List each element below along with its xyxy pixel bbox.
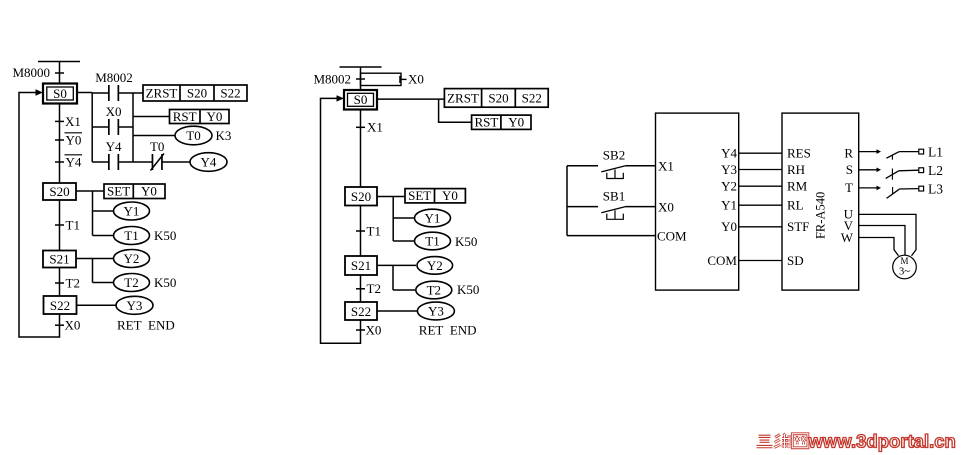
svg-text:X0: X0 [408, 72, 424, 87]
switch blade L1 [886, 152, 899, 159]
arrowhead into S0 (middle) [337, 95, 345, 101]
svg-text:Y0: Y0 [721, 219, 737, 234]
wire S20 to SET (middle) [377, 196, 405, 198]
wire top power bar (middle SFC) [340, 66, 382, 68]
svg-text:RET END: RET END [117, 318, 175, 333]
jump branch rectangle (middle) [361, 73, 402, 85]
svg-text:T2: T2 [427, 283, 441, 298]
transition X1 tick (middle) [356, 126, 365, 128]
step S21 box (left) [43, 251, 76, 268]
wire S22 to coil Y3 [77, 304, 117, 306]
svg-text:RST: RST [474, 115, 498, 130]
wire Y3 to RH [739, 169, 782, 171]
svg-text:SB1: SB1 [603, 188, 625, 203]
svg-text:S22: S22 [220, 86, 240, 101]
wire top power bar (left SFC) [38, 61, 80, 63]
svg-text:T2: T2 [66, 276, 80, 291]
svg-text:Y4: Y4 [721, 146, 737, 161]
wire blade to L1 [899, 151, 918, 153]
svg-text:SD: SD [787, 253, 804, 268]
step S22 box (left) [44, 296, 77, 314]
wire feedback loop (middle) [321, 98, 361, 343]
wire blade to L2 [898, 169, 918, 172]
svg-text:X0: X0 [106, 104, 122, 119]
svg-text:X1: X1 [658, 159, 674, 174]
wire rail to COM [567, 235, 656, 237]
wire contact M8002 to ZRST [118, 92, 143, 94]
svg-text:S20: S20 [351, 189, 371, 204]
svg-text:SET: SET [408, 188, 431, 203]
svg-text:X1: X1 [367, 120, 383, 135]
wire blade to L3 [899, 188, 918, 190]
step S20 box (left) [43, 183, 76, 200]
svg-text:COM: COM [657, 228, 687, 243]
svg-text:R: R [844, 146, 853, 161]
transition X1 tick (left) [55, 120, 64, 122]
terminal square L3 [919, 186, 924, 191]
svg-text:Y0: Y0 [66, 133, 82, 148]
arrowhead R [877, 149, 882, 154]
svg-text:T0: T0 [186, 128, 200, 143]
svg-text:Y1: Y1 [124, 204, 140, 219]
svg-text:X0: X0 [65, 318, 81, 333]
svg-text:RH: RH [787, 162, 805, 177]
wire right rail to RST [133, 116, 170, 118]
svg-text:Y2: Y2 [124, 251, 140, 266]
wire SB2 to X1 [626, 165, 656, 167]
svg-text:Y0: Y0 [508, 115, 524, 130]
svg-text:FR-A540: FR-A540 [814, 192, 828, 239]
wire to coil T2 (middle) [393, 289, 415, 291]
svg-text:T2: T2 [367, 281, 381, 296]
wire S0 to S20 [59, 104, 61, 184]
wire branch vertical under S21 line [92, 259, 94, 283]
pushbutton SB1 [601, 207, 625, 213]
wire to coil Y1 (middle) [393, 217, 414, 219]
svg-text:T0: T0 [150, 139, 164, 154]
switch blade L2 [886, 171, 899, 178]
svg-text:L1: L1 [928, 144, 943, 159]
instruction box SET Y0 (middle) [405, 189, 465, 203]
svg-text:S22: S22 [351, 304, 371, 319]
transition Y4-bar tick (left) [55, 161, 64, 163]
contact M8002 transition tick (middle) [356, 78, 365, 80]
wire V to motor [859, 226, 905, 256]
svg-text:S20: S20 [187, 86, 207, 101]
coil T1 with K50 (middle) [415, 232, 451, 250]
wire rail to SB2 [567, 165, 598, 167]
arrowhead T [877, 186, 882, 191]
step S20 box (middle) [345, 187, 377, 206]
svg-text:X1: X1 [65, 114, 81, 129]
svg-text:SET: SET [107, 184, 130, 199]
svg-text:M8002: M8002 [313, 71, 351, 86]
wire COM to SD [739, 260, 782, 262]
instruction box SET Y0 (left) [104, 184, 165, 199]
svg-text:L3: L3 [928, 181, 943, 196]
contact T0 normally closed [151, 154, 153, 170]
coil Y1 (middle) [415, 209, 451, 227]
step S0 inner box (middle) [348, 93, 374, 106]
transition T1 tick (left) [55, 224, 64, 226]
wire S0 to S20 (middle) [360, 110, 362, 188]
svg-text:RES: RES [787, 146, 811, 161]
wire S0 output (middle) [377, 98, 444, 100]
wire S0 to ladder branch [77, 92, 92, 94]
svg-text:T1: T1 [425, 234, 439, 249]
svg-text:Y3: Y3 [428, 304, 444, 319]
svg-text:SB2: SB2 [603, 148, 625, 163]
wire S21 to S22 (middle) [360, 275, 362, 302]
wire S21 to S22 [59, 268, 61, 297]
watermark chinese char WANG [792, 434, 808, 448]
watermark chinese char SAN [757, 436, 773, 446]
wire to coil T1 (middle) [393, 240, 414, 242]
coil Y2 (middle) [417, 257, 453, 275]
svg-text:RST: RST [173, 109, 197, 124]
step S0 initial (middle) outer box [344, 90, 377, 110]
svg-text:S: S [846, 162, 853, 177]
coil Y3 (middle) [417, 302, 454, 320]
svg-text:www.3dportal.cn: www.3dportal.cn [808, 430, 956, 451]
svg-text:Y1: Y1 [721, 198, 737, 213]
svg-text:ZRST: ZRST [447, 90, 479, 105]
wire T out [859, 187, 878, 189]
svg-text:S22: S22 [50, 298, 70, 313]
terminal square L1 [919, 149, 924, 154]
transition T2 tick (left) [55, 282, 64, 284]
wire ladder left rail [91, 93, 93, 163]
wire contact X0 to right rail [118, 126, 133, 128]
PLC box [656, 113, 739, 290]
arrowhead into S0 (left) [36, 89, 44, 95]
wire feedback loop (left) [19, 93, 60, 338]
watermark chinese char WEI [774, 434, 791, 448]
step S21 box (middle) [345, 256, 377, 275]
coil Y3 (left) [116, 296, 153, 314]
instruction box RST Y0 (left) [170, 110, 230, 124]
wire S20 to SET [76, 190, 104, 192]
wire to coil Y1 [93, 210, 114, 212]
svg-text:RET END: RET END [419, 323, 477, 338]
wire T0 NC to coil Y4 [162, 161, 190, 163]
step S0 initial (left) outer box [43, 84, 77, 104]
wire branch to RST (middle) [439, 99, 472, 122]
wire into contact Y4 [92, 161, 109, 163]
svg-text:T1: T1 [367, 223, 381, 238]
wire R out [859, 151, 878, 153]
svg-text:K50: K50 [457, 282, 479, 297]
svg-text:Y0: Y0 [141, 184, 157, 199]
svg-text:K50: K50 [154, 275, 176, 290]
wire to coil T1 [93, 235, 114, 237]
svg-text:RL: RL [787, 198, 804, 213]
svg-text:S21: S21 [351, 258, 371, 273]
instruction box ZRST S20 S22 (left) [143, 85, 247, 101]
step S22 box (middle) [345, 302, 377, 320]
transition T2 tick (middle) [356, 288, 365, 290]
svg-text:Y0: Y0 [442, 188, 458, 203]
svg-text:X0: X0 [658, 199, 674, 214]
transition T1 tick (middle) [356, 230, 365, 232]
svg-text:T2: T2 [124, 275, 138, 290]
svg-text:K50: K50 [455, 234, 477, 249]
svg-text:S0: S0 [53, 86, 67, 101]
wire branch vertical under S20 (middle) [392, 197, 394, 242]
wire S out [859, 169, 878, 171]
wire vertical above S0 (middle) [360, 67, 362, 90]
arrowhead S [877, 168, 882, 173]
svg-text:M8002: M8002 [95, 70, 133, 85]
wire S21 to coil Y2 (middle) [377, 264, 416, 266]
coil T0 with K3 (left) [175, 126, 212, 145]
transition X0 tick on jump branch [399, 76, 401, 83]
svg-text:Y0: Y0 [207, 109, 223, 124]
wire branch vertical under S21 (middle) [392, 265, 394, 290]
svg-text:X0: X0 [366, 323, 382, 338]
svg-text:T: T [845, 180, 853, 195]
transition X0 tick (left) [55, 324, 64, 326]
coil Y4 (left) [190, 153, 227, 172]
wire SB1 to X0 [626, 206, 656, 208]
svg-text:W: W [841, 230, 854, 245]
svg-text:Y3: Y3 [721, 162, 737, 177]
svg-text:K50: K50 [154, 228, 176, 243]
terminal square L2 [919, 168, 924, 173]
instruction box RST Y0 (middle) [472, 115, 531, 129]
wire Y4 to RES [739, 152, 782, 154]
svg-text:STF: STF [787, 219, 809, 234]
svg-text:COM: COM [707, 253, 737, 268]
wire Y0 to STF [739, 226, 782, 228]
wire Y1 to RL [739, 204, 782, 206]
wire to coil T2 [93, 282, 114, 284]
coil T2 with K50 (middle) [416, 281, 452, 299]
wire S21 to coil Y2 [76, 258, 114, 260]
contact X0 (left ladder) [108, 119, 110, 135]
wire ladder right rail [132, 93, 134, 162]
svg-text:3~: 3~ [899, 267, 910, 278]
wire into contact M8002 [92, 92, 109, 94]
svg-text:M: M [900, 256, 908, 266]
wire branch vertical under S20 line [92, 191, 94, 236]
motor M 3~ circle [893, 255, 917, 279]
transition Y0-bar tick (left) [55, 139, 64, 141]
svg-text:Y4: Y4 [106, 139, 122, 154]
coil T1 with K50 (left) [114, 227, 150, 245]
svg-text:L2: L2 [928, 163, 943, 178]
svg-text:T1: T1 [124, 228, 138, 243]
pushbutton SB2 [601, 166, 625, 172]
wire U to motor [859, 214, 916, 255]
contact M8000 transition tick [55, 72, 64, 74]
contact Y4 (left ladder) [108, 154, 110, 170]
coil Y1 (left) [114, 202, 150, 220]
svg-text:S22: S22 [522, 90, 542, 105]
wire S22 to coil Y3 (middle) [377, 310, 417, 312]
wire S20 to S21 [59, 200, 61, 251]
svg-text:S20: S20 [49, 184, 69, 199]
step S0 inner box [47, 87, 74, 100]
contact M8002 (left ladder) [108, 85, 110, 101]
instruction box ZRST S20 S22 (middle) [444, 89, 548, 108]
transition X0 tick (middle) [356, 329, 365, 331]
wire Y2 to RM [739, 185, 782, 187]
svg-text:Y4: Y4 [66, 155, 82, 170]
svg-text:Y4: Y4 [201, 155, 217, 170]
wire S20 to S21 (middle) [360, 206, 362, 257]
svg-text:Y2: Y2 [721, 179, 737, 194]
svg-text:Y1: Y1 [425, 211, 441, 226]
wire common rail for pushbuttons [566, 166, 568, 236]
switch blade L3 [887, 189, 900, 198]
svg-text:S0: S0 [354, 92, 368, 107]
wire right rail to T0 coil [133, 135, 175, 137]
wire into contact X0 [92, 126, 109, 128]
coil Y2 (left) [114, 250, 150, 268]
inverter FR-A540 box [782, 113, 859, 290]
wire rail to SB1 [567, 206, 598, 208]
wire contact Y4 to T0 NC [118, 161, 152, 163]
svg-text:S20: S20 [488, 90, 508, 105]
svg-text:Y3: Y3 [127, 298, 143, 313]
wire W to motor [859, 238, 899, 256]
svg-text:Y2: Y2 [427, 258, 443, 273]
svg-text:M8000: M8000 [12, 65, 50, 80]
svg-text:T1: T1 [66, 218, 80, 233]
svg-text:K3: K3 [216, 128, 232, 143]
wire vertical above S0 [59, 62, 61, 85]
coil T2 with K50 (left) [114, 274, 150, 292]
svg-text:S21: S21 [49, 252, 69, 267]
svg-text:RM: RM [787, 179, 808, 194]
svg-text:ZRST: ZRST [146, 86, 178, 101]
